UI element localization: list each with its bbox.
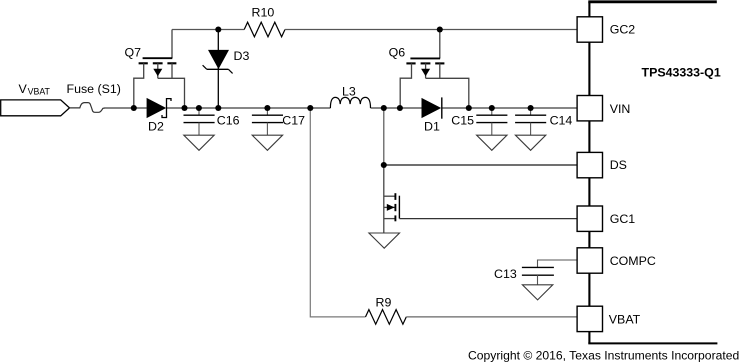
pin VBAT [577, 306, 602, 331]
IC pin spine [588, 2, 590, 344]
svg-text:VBAT: VBAT [609, 313, 641, 327]
wire L3 to D1 anode [371, 107, 422, 109]
capacitor C14 [515, 108, 546, 135]
node VBAT label [19, 82, 51, 96]
wire R10 to GC2 pin [285, 29, 577, 31]
zener diode D3 [203, 30, 233, 109]
svg-text:C17: C17 [282, 114, 305, 128]
junction dot DS node [381, 162, 387, 168]
ground below C13 [522, 285, 552, 300]
wire Q7 gate to R10 [172, 29, 244, 31]
svg-text:D2: D2 [148, 119, 164, 133]
ground below C15 [477, 135, 507, 150]
svg-text:DS: DS [610, 158, 627, 172]
node VBAT input connector [1, 100, 70, 116]
svg-text:C14: C14 [550, 114, 573, 128]
svg-text:COMPC: COMPC [610, 254, 656, 268]
wire D2 cathode to VIN [167, 107, 331, 109]
wire SW node down to DS [383, 108, 385, 165]
capacitor C13 [522, 267, 554, 284]
svg-text:VBAT: VBAT [28, 87, 51, 97]
svg-text:GC1: GC1 [610, 212, 636, 226]
resistor R9 [366, 310, 407, 325]
ground below C14 [515, 135, 545, 150]
junction dots main rail [131, 105, 534, 111]
capacitor C17 [252, 108, 283, 135]
diode D2 (Schottky) [147, 98, 171, 118]
junction dot Q6 gate [437, 26, 443, 32]
svg-text:D3: D3 [234, 49, 250, 63]
inductor L3 [330, 97, 370, 108]
wire GC1 gate to pin [399, 218, 577, 220]
transistor Q7 (PMOS) [134, 30, 185, 109]
ground below C16 [184, 135, 214, 150]
svg-text:D1: D1 [424, 119, 440, 133]
wire R9 to VBAT pin [406, 316, 577, 318]
transistor NMOS at GC1 [384, 165, 400, 233]
junction dot D3 top [215, 26, 221, 32]
wire fuse to D2 anode [105, 107, 147, 109]
svg-text:L3: L3 [342, 84, 356, 98]
pin GC2 [577, 17, 602, 42]
svg-text:TPS43333-Q1: TPS43333-Q1 [642, 65, 721, 79]
wire DS to pin [384, 164, 577, 166]
wire D1 cathode to VIN pin [442, 107, 577, 109]
svg-text:Copyright © 2016, Texas Instru: Copyright © 2016, Texas Instruments Inco… [468, 349, 739, 363]
svg-text:GC2: GC2 [610, 22, 636, 36]
svg-text:Q7: Q7 [125, 46, 142, 60]
wire COMPC to C13 [538, 260, 578, 267]
pin VIN [577, 96, 602, 121]
ground below NMOS [369, 233, 400, 248]
ground below C17 [252, 135, 282, 150]
capacitor C15 [476, 108, 507, 135]
capacitor C16 [184, 108, 215, 135]
transistor Q6 (PMOS) [400, 30, 469, 109]
svg-text:R10: R10 [252, 5, 275, 19]
svg-text:C16: C16 [217, 114, 240, 128]
svg-text:Fuse (S1): Fuse (S1) [67, 82, 121, 96]
svg-text:VIN: VIN [610, 102, 631, 116]
svg-text:V: V [19, 82, 28, 96]
pin DS [577, 152, 602, 177]
svg-text:R9: R9 [376, 296, 392, 310]
pin GC1 [577, 206, 602, 231]
svg-text:C13: C13 [494, 267, 517, 281]
resistor R10 [244, 22, 285, 37]
IC TPS43333-Q1 outline top edge [588, 0, 717, 3]
fuse S1 [70, 103, 105, 113]
svg-text:Q6: Q6 [389, 46, 406, 60]
wire VIN node down to R9 [310, 108, 365, 317]
diode D1 [422, 97, 442, 118]
pin COMPC [577, 248, 602, 273]
svg-text:C15: C15 [451, 114, 474, 128]
IC outline bottom edge [588, 342, 717, 344]
